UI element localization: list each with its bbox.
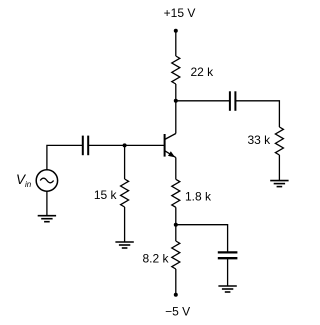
ground below 15 k bbox=[115, 242, 133, 248]
wire R 33k to ground bbox=[278, 155, 280, 181]
wire R 15k to ground bbox=[124, 207, 126, 242]
ground below source bbox=[38, 216, 56, 222]
svg-text:+15 V: +15 V bbox=[164, 6, 196, 20]
wire from R 22k to collector node bbox=[175, 84, 177, 101]
wire R 8.2k to -5V terminal bbox=[175, 269, 177, 295]
wire C2 to output corner bbox=[235, 101, 279, 127]
capacitor C1 input coupling bbox=[83, 136, 88, 156]
wire C3 to ground bbox=[227, 258, 229, 286]
terminal dot +15V bbox=[174, 29, 178, 33]
sine wave in source bbox=[40, 178, 53, 183]
wire collector node to C2 bbox=[176, 100, 230, 102]
resistor 1.8 k bbox=[172, 179, 180, 207]
svg-text:8.2 k: 8.2 k bbox=[142, 251, 169, 265]
svg-text:1.8 k: 1.8 k bbox=[185, 189, 212, 203]
ground below 33 k bbox=[270, 181, 288, 187]
svg-text:33 k: 33 k bbox=[248, 133, 272, 147]
resistor 22 k bbox=[172, 56, 180, 84]
source Vin AC bbox=[36, 170, 57, 191]
capacitor C2 output coupling bbox=[230, 91, 236, 111]
node collector junction bbox=[174, 99, 178, 103]
wire emitter node to C3 bbox=[176, 225, 228, 253]
wire C1 to base bbox=[88, 144, 164, 146]
wire from +15V to R 22k bbox=[175, 31, 177, 56]
svg-text:22 k: 22 k bbox=[191, 65, 215, 79]
wire collector node to Q1 bbox=[175, 101, 177, 134]
resistor 33 k bbox=[275, 127, 283, 155]
wire emitter node to R 8.2k bbox=[175, 225, 177, 241]
resistor 15 k bbox=[121, 179, 129, 207]
resistor 8.2 k bbox=[172, 241, 180, 269]
ground below C3 bbox=[218, 286, 236, 292]
wire source to ground bbox=[46, 191, 48, 216]
svg-text:−5 V: −5 V bbox=[165, 304, 190, 318]
svg-text:Vin: Vin bbox=[16, 172, 32, 189]
transistor Q1 bbox=[165, 134, 176, 158]
svg-text:15 k: 15 k bbox=[94, 188, 118, 202]
wire base node to R 15k bbox=[124, 145, 126, 179]
node emitter junction bbox=[174, 223, 178, 227]
capacitor C3 bypass bbox=[218, 252, 238, 258]
terminal dot -5V bbox=[174, 293, 178, 297]
wire source to input corner bbox=[47, 145, 83, 169]
node base junction bbox=[123, 143, 127, 147]
wire Q1 emitter to R 1.8k bbox=[175, 158, 177, 180]
wire R 1.8k to emitter node bbox=[175, 207, 177, 224]
